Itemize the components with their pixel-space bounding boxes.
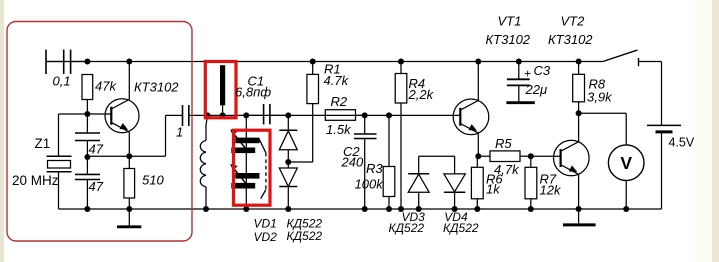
node VT2 emitter bottom (576, 206, 582, 212)
resistor R7 12k (525, 156, 537, 209)
resistor R6 1k (471, 156, 483, 209)
node Q1 collector on rail (126, 59, 132, 65)
red highlight box varicaps (234, 130, 271, 205)
label VT2 (561, 14, 586, 29)
crystal Z1 20 MHz (47, 156, 72, 209)
svg-text:R2: R2 (331, 94, 348, 109)
node antenna on bus (220, 112, 226, 118)
varicap VD1 arrow (230, 129, 249, 152)
capacitor C 0,1 (46, 50, 87, 74)
transistor Q1 KT3102 (87, 99, 139, 133)
capacitor coupling 1 (183, 105, 189, 126)
node coil top (205, 112, 211, 118)
label VD1 (254, 217, 277, 231)
svg-text:1.5k: 1.5k (326, 122, 352, 137)
capacitor C2 240 (354, 115, 377, 209)
label R1 (324, 62, 341, 77)
label 47 lower (89, 179, 104, 194)
svg-text:1: 1 (176, 125, 183, 140)
svg-text:22μ: 22μ (525, 82, 548, 97)
wire emitter line Q1 (87, 155, 166, 157)
label 240 (341, 154, 364, 169)
node R8 bottom / collector (576, 110, 582, 116)
transistor VT1 KT3102 (453, 99, 489, 135)
node varicap bottom (243, 206, 249, 212)
svg-text:КТ3102: КТ3102 (548, 32, 593, 47)
wire VT1 emitter (477, 133, 479, 156)
svg-text:47: 47 (89, 142, 104, 157)
wire crystal branch (base junction to Z1 top) (59, 114, 88, 156)
wire R1 drop to diode midpoint (288, 104, 312, 162)
node R8 top on rail (576, 59, 582, 65)
label 100k (355, 176, 385, 191)
wire bottom ground bus (59, 208, 662, 210)
node VT1 collector on rail (475, 59, 481, 65)
wire varicap column (245, 115, 247, 209)
svg-text:100k: 100k (355, 176, 385, 191)
node detector top (285, 112, 291, 118)
node C3 top on rail (516, 59, 522, 65)
svg-text:КТ3102: КТ3102 (134, 80, 179, 95)
diode VD4 (444, 156, 465, 209)
node caps bottom on bus (84, 206, 90, 212)
label КД522 VD3 (389, 221, 425, 235)
ground VT2 (563, 209, 596, 225)
label 3,9k (587, 89, 613, 104)
svg-text:2,2k: 2,2k (408, 87, 435, 102)
svg-text:R5: R5 (495, 136, 512, 151)
label 47k (95, 79, 117, 94)
node base junction (84, 111, 90, 117)
inductor L1 coil (200, 115, 207, 209)
svg-text:4.7k: 4.7k (324, 73, 350, 88)
label 1.5k (326, 122, 352, 137)
svg-text:510: 510 (142, 173, 164, 188)
node R7 bottom (528, 206, 534, 212)
node C2 bottom (362, 206, 368, 212)
battery GB1 4.5V (647, 62, 681, 210)
node between diodes (285, 159, 291, 165)
label 4.7k (324, 73, 350, 88)
resistor 47k (82, 75, 93, 115)
node R4 top on rail (398, 59, 404, 65)
resistor R5 4,7k (478, 151, 531, 162)
resistor R3 100k (383, 115, 395, 209)
wire mid bus (detector line) (189, 114, 460, 116)
right page margin tint (695, 0, 712, 262)
label R7 (540, 172, 557, 187)
node R4 bottom (398, 206, 404, 212)
svg-text:КТ3102: КТ3102 (486, 32, 531, 47)
node C1 left (243, 112, 249, 118)
node top rail / R47k (84, 59, 90, 65)
label R2 (331, 94, 348, 109)
node detector bottom (285, 206, 291, 212)
svg-text:4.5V: 4.5V (669, 136, 695, 150)
label 12k (540, 182, 562, 197)
label 2,2k (408, 87, 435, 102)
label КД522 VD2 (287, 229, 323, 243)
svg-text:12k: 12k (540, 182, 562, 197)
label + C3 (524, 63, 551, 81)
label VD3 (402, 210, 426, 224)
label КТ3102 VT1 (486, 32, 531, 47)
varicap VD2 thick plates (231, 173, 259, 189)
svg-text:КД522: КД522 (389, 221, 425, 235)
node 510 bottom (126, 206, 132, 212)
svg-text:V: V (620, 153, 632, 173)
wire Q1 collector (128, 62, 130, 100)
node VD3 bottom (416, 206, 422, 212)
label R6 (486, 172, 503, 187)
label C2 (343, 144, 360, 159)
label 0,1 (53, 74, 71, 89)
label 6,8пф (235, 85, 271, 100)
ground left (117, 209, 141, 227)
diode VD3 (408, 156, 429, 209)
wire R4 drop to ground (400, 103, 402, 209)
svg-text:VT2: VT2 (561, 14, 586, 29)
label 510 (142, 173, 164, 188)
svg-text:VD2: VD2 (254, 230, 278, 244)
node R6 bottom (474, 206, 480, 212)
node VD4 bottom (452, 206, 458, 212)
resistor R4 2,2k (395, 62, 407, 104)
svg-text:КД522: КД522 (287, 229, 323, 243)
varicap gang coupling bracket (259, 139, 266, 199)
label КТ3102 Q1 (134, 80, 179, 95)
svg-text:3,9k: 3,9k (587, 89, 613, 104)
varicap VD1 thick plates (231, 138, 259, 154)
svg-text:C3: C3 (534, 63, 551, 78)
svg-text:VT1: VT1 (498, 14, 522, 29)
svg-text:Z1: Z1 (35, 136, 51, 151)
node R1 top on rail (310, 59, 316, 65)
label R8 (589, 77, 606, 92)
label 47 upper (89, 142, 104, 157)
svg-text:0,1: 0,1 (53, 74, 71, 89)
resistor R1 (307, 62, 319, 104)
label R4 (409, 76, 426, 91)
label C1 (248, 74, 265, 89)
node R5 right / R7 top (528, 153, 534, 159)
capacitor C1 6,8pf (246, 104, 288, 124)
wire R8 node to voltmeter (579, 113, 627, 145)
svg-text:VD1: VD1 (254, 217, 277, 231)
wire VT2 emitter (578, 174, 580, 209)
svg-text:240: 240 (341, 154, 364, 169)
svg-text:20 MHz: 20 MHz (12, 173, 59, 188)
label VD4 (444, 210, 468, 224)
red highlight box antenna (205, 62, 236, 118)
wire caps midpoint to emitter (86, 155, 88, 158)
capacitor 47 lower (75, 157, 100, 209)
svg-text:6,8пф: 6,8пф (235, 85, 271, 100)
svg-text:1k: 1k (486, 181, 501, 196)
left beige page edge (0, 0, 4, 262)
varicap VD2 arrow (230, 164, 249, 187)
node voltmeter bottom (623, 206, 629, 212)
node caps midpoint (84, 154, 90, 160)
label R5 (495, 136, 512, 151)
capacitor input 0,1 left terminal bar (45, 50, 47, 74)
wire VD3-VD4 top jumper (419, 155, 455, 157)
label 4,7k (494, 162, 520, 177)
label R3 (366, 161, 383, 176)
label КТ3102 VT2 (548, 32, 593, 47)
node VT1 emitter (475, 153, 481, 159)
label 20 MHz (12, 173, 59, 188)
wire voltmeter bottom (625, 181, 627, 210)
wire VT1 collector (477, 62, 479, 101)
red rounded selection box (oscillator) (7, 22, 192, 242)
label КД522 VD1 (287, 217, 323, 231)
wire VT2 collector (578, 113, 580, 141)
label 4.5V (669, 136, 695, 150)
svg-text:+: + (524, 67, 531, 81)
node coil bottom (203, 206, 209, 212)
capacitor C3 22u (507, 62, 530, 103)
voltmeter V (608, 145, 644, 181)
wire top supply rail (46, 61, 603, 63)
antenna thick bar (220, 65, 225, 115)
resistor R2 (325, 110, 364, 121)
node Q1 emitter (126, 153, 132, 159)
label КД522 VD4 (443, 221, 479, 235)
label VD2 (254, 230, 278, 244)
svg-text:R3: R3 (366, 161, 383, 176)
wire Q1 emitter (128, 132, 130, 156)
svg-text:КД522: КД522 (443, 221, 479, 235)
node R3 bottom (386, 206, 392, 212)
capacitor 47 upper (75, 114, 100, 157)
label VT1 (498, 14, 522, 29)
label 22μ (525, 82, 548, 97)
svg-text:47k: 47k (95, 79, 117, 94)
right beige page edge (712, 0, 719, 262)
label 1k (486, 181, 501, 196)
node R3 top (386, 112, 392, 118)
resistor R8 3,9k (573, 62, 585, 114)
label 1 (176, 125, 183, 140)
wire emitter jog up to coupling cap (166, 115, 183, 156)
ground C3 (506, 101, 534, 104)
label Z1 (35, 136, 51, 151)
node C2 top (362, 112, 368, 118)
diode D2 (down) (279, 162, 297, 209)
diode D1 (up) (279, 115, 297, 162)
switch SA1 (603, 50, 662, 66)
resistor 510 (124, 156, 135, 209)
svg-text:47: 47 (89, 179, 104, 194)
wire R5 to VT2 base (531, 155, 561, 157)
transistor VT2 KT3102 (554, 140, 590, 176)
